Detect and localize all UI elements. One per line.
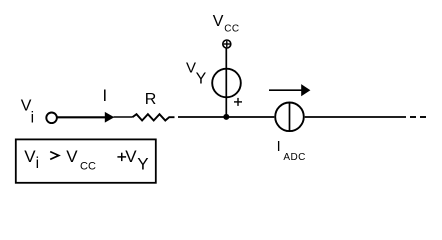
- svg-text:I: I: [277, 139, 281, 155]
- svg-text:R: R: [145, 91, 157, 108]
- svg-text:i: i: [36, 155, 39, 172]
- svg-text:Y: Y: [196, 71, 207, 88]
- svg-text:V: V: [213, 13, 224, 30]
- svg-text:ADC: ADC: [283, 152, 305, 163]
- svg-text:I: I: [103, 87, 108, 105]
- svg-text:V: V: [125, 147, 137, 166]
- svg-text:V: V: [24, 147, 36, 166]
- svg-text:V: V: [66, 147, 78, 166]
- svg-text:CC: CC: [80, 160, 96, 172]
- svg-text:i: i: [31, 110, 34, 127]
- svg-text:Y: Y: [137, 155, 148, 174]
- svg-text:CC: CC: [224, 23, 239, 34]
- svg-text:V: V: [186, 60, 196, 77]
